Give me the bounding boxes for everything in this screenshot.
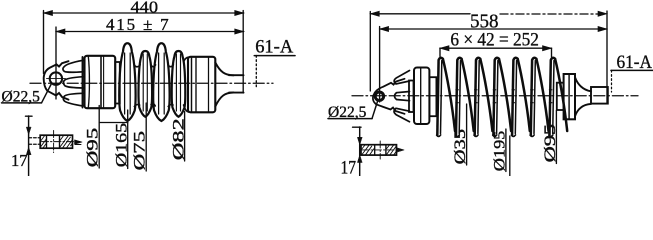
eye hole circle right bbox=[375, 92, 383, 100]
fork tine 3 bbox=[63, 93, 83, 106]
shed 2 (small) bbox=[139, 51, 153, 117]
dimension 6 x 42 = 252 bbox=[440, 46, 552, 57]
pin hatch right block bbox=[60, 136, 72, 148]
cap inner line b bbox=[100, 56, 102, 108]
shed 3 (big) bbox=[153, 43, 169, 121]
shed 7 bbox=[549, 58, 567, 137]
svg-text:61-A: 61-A bbox=[255, 38, 294, 58]
pin arrow bbox=[75, 140, 83, 144]
cap body bbox=[85, 56, 116, 108]
stub bbox=[229, 74, 244, 76]
svg-text:17: 17 bbox=[341, 157, 357, 176]
ext line Ø35 bbox=[466, 104, 468, 165]
cap neck right bbox=[429, 77, 436, 116]
pin dim arrow upper right bbox=[357, 137, 362, 144]
pin axis cross bbox=[42, 142, 82, 145]
pin detail right: tick bbox=[353, 126, 361, 128]
svg-text:Ø95: Ø95 bbox=[85, 127, 102, 167]
wire extension line right end bbox=[242, 11, 244, 94]
wire extension line (415) through eye bbox=[55, 27, 57, 99]
svg-text:Ø95: Ø95 bbox=[542, 124, 559, 163]
leader 61-A right bbox=[611, 70, 613, 92]
dimension 440 bbox=[44, 10, 244, 15]
pin detail left: tick bbox=[26, 115, 33, 117]
svg-text:440: 440 bbox=[131, 0, 159, 17]
ext line Ø95 right bbox=[555, 111, 557, 164]
leader 61-A left bbox=[255, 56, 257, 87]
cap inner line a bbox=[88, 56, 89, 108]
pin dim arrow lower left bbox=[26, 147, 31, 154]
pin extension line right bbox=[359, 127, 361, 176]
ext line Ø165 bbox=[127, 123, 129, 169]
cap collar right bbox=[409, 81, 414, 113]
pin detail left: extension line bbox=[28, 116, 30, 176]
waist 3 bbox=[168, 65, 174, 67]
centerline axis right insulator bbox=[352, 95, 638, 97]
svg-text:6 × 42 = 252: 6 × 42 = 252 bbox=[450, 29, 539, 50]
shed 6 bbox=[530, 58, 548, 137]
ext line Ø75 bbox=[145, 103, 147, 171]
eye centerline cross bbox=[47, 78, 66, 80]
pin axis right bbox=[362, 149, 403, 151]
right cap neck bbox=[557, 83, 564, 110]
cap left face bbox=[82, 57, 84, 108]
pin hatch blocks right bbox=[362, 145, 397, 155]
waist 2 bbox=[151, 65, 156, 67]
svg-text:Ø195: Ø195 bbox=[491, 130, 508, 171]
eye hole circle left bbox=[50, 72, 62, 84]
clevis tongue plate left bbox=[44, 61, 69, 99]
shed 1 (big) bbox=[119, 43, 135, 121]
dimension 558 bbox=[370, 11, 607, 16]
ext line Ø195 bbox=[505, 129, 507, 172]
shed 3 bbox=[474, 58, 492, 137]
pin arrow right bbox=[396, 148, 404, 153]
clevis tongue right bbox=[373, 79, 405, 114]
cap step ring bbox=[115, 62, 120, 104]
right cap rings bbox=[564, 74, 575, 119]
dimension line 2 bbox=[380, 26, 607, 31]
svg-text:415 ± 7: 415 ± 7 bbox=[106, 15, 170, 34]
pin hatch left block bbox=[40, 136, 46, 148]
ext line Ø95 left bbox=[98, 106, 100, 169]
jog connector bbox=[99, 110, 127, 123]
svg-text:Ø82: Ø82 bbox=[170, 118, 187, 160]
end cylinder Ø82 bbox=[188, 57, 215, 113]
shed 4 bbox=[493, 58, 511, 137]
svg-text:17: 17 bbox=[11, 151, 28, 170]
cap flange right bbox=[414, 68, 429, 125]
shed 5 bbox=[511, 58, 529, 137]
shed 4 (small) bbox=[172, 51, 186, 117]
centerline axis left insulator bbox=[30, 82, 273, 84]
rod between sheds bbox=[456, 90, 552, 103]
flare to end cylinder bbox=[184, 57, 189, 61]
pin body right bbox=[361, 145, 397, 155]
shed 1 bbox=[437, 58, 455, 137]
svg-text:Ø35: Ø35 bbox=[452, 129, 469, 165]
right cap cone bbox=[575, 77, 591, 91]
extension line 558 left bbox=[369, 12, 371, 92]
pin body left bbox=[40, 135, 72, 148]
fork tine 1 bbox=[63, 60, 83, 72]
extension line right end bbox=[606, 11, 608, 104]
wire extension line left (440) bbox=[43, 11, 45, 74]
right stub bbox=[591, 87, 608, 104]
shed 2 bbox=[455, 58, 473, 137]
fork tine 2 bbox=[63, 77, 83, 88]
extension line second bbox=[379, 27, 381, 103]
ext line Ø82 bbox=[184, 112, 186, 162]
pin dim arrow lower right bbox=[357, 155, 362, 162]
pin dim arrow upper left bbox=[26, 127, 31, 134]
waist 1 bbox=[134, 65, 140, 67]
fork tines right bbox=[394, 71, 409, 85]
svg-text:Ø75: Ø75 bbox=[132, 131, 149, 171]
taper to stub bbox=[215, 63, 233, 76]
svg-text:Ø165: Ø165 bbox=[113, 122, 130, 167]
dimension 415 ± 7 bbox=[56, 29, 244, 34]
pin detail left: hidden dashes bbox=[29, 137, 40, 139]
